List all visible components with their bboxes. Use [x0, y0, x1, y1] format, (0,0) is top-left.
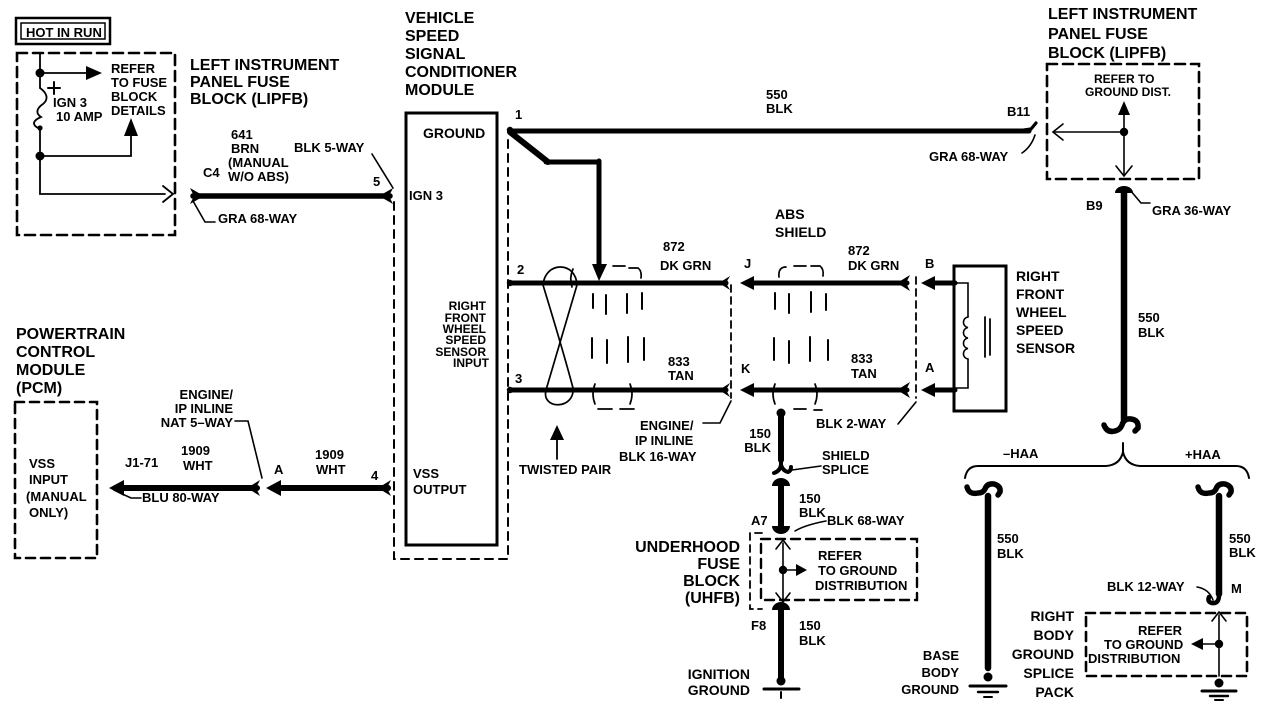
svg-text:872: 872 — [848, 243, 870, 258]
svg-text:872: 872 — [663, 239, 685, 254]
label RIGHT FRONT WHEEL SPEED SENSOR — [1016, 268, 1075, 356]
svg-text:150: 150 — [799, 491, 821, 506]
node junction dot splice pack — [1215, 640, 1223, 648]
svg-text:OUTPUT: OUTPUT — [413, 482, 467, 497]
svg-text:BODY: BODY — [921, 665, 959, 680]
svg-text:GRA 36-WAY: GRA 36-WAY — [1152, 203, 1232, 218]
svg-text:LEFT INSTRUMENT: LEFT INSTRUMENT — [1048, 6, 1198, 23]
svg-text:BLK: BLK — [799, 505, 826, 520]
svg-text:ONLY): ONLY) — [29, 505, 68, 520]
label LEFT INSTRUMENT PANEL FUSE BLOCK (LIPFB) right — [1048, 6, 1198, 62]
ground base body — [970, 673, 1006, 698]
wire 833 TAN pin3 segment — [511, 383, 730, 397]
note REFER TO GROUND DISTRIBUTION right — [1088, 623, 1183, 666]
sensor right front wheel speed sensor box — [954, 266, 1006, 411]
svg-text:1909: 1909 — [181, 443, 210, 458]
connector label BLK 5-WAY — [294, 140, 393, 188]
inductor coil inside sensor — [955, 283, 968, 388]
wire label 833 TAN right — [851, 351, 877, 381]
wire 150 BLK ignition ground — [772, 602, 790, 678]
node junction dot in LIPFB — [1120, 128, 1128, 136]
svg-text:IP INLINE: IP INLINE — [175, 401, 234, 416]
svg-text:REFER: REFER — [818, 548, 863, 563]
wire 1909 WHT module segment — [266, 480, 391, 496]
svg-text:IP INLINE: IP INLINE — [635, 433, 694, 448]
svg-text:DK GRN: DK GRN — [660, 258, 711, 273]
wire sensor pin A stub — [921, 383, 955, 397]
svg-text:DISTRIBUTION: DISTRIBUTION — [1088, 651, 1180, 666]
svg-text:DETAILS: DETAILS — [111, 103, 166, 118]
shield 1 hatch ticks upper row — [593, 293, 642, 314]
svg-text:833: 833 — [851, 351, 873, 366]
twisted pair symbol — [543, 267, 577, 405]
fuse block UHFB dashed box — [761, 539, 917, 600]
shield 2 hatch ticks upper row — [775, 292, 826, 313]
wire 833 TAN K segment — [740, 382, 910, 398]
node pin 3 knob — [507, 387, 513, 393]
svg-text:UNDERHOOD: UNDERHOOD — [635, 539, 740, 556]
svg-text:1909: 1909 — [315, 447, 344, 462]
plus sign — [48, 82, 60, 94]
note REFER TO GROUND DIST. — [1085, 72, 1171, 99]
wire 150 BLK drain upper — [778, 413, 784, 460]
svg-text:BLOCK (LIPFB): BLOCK (LIPFB) — [190, 91, 308, 108]
svg-text:SPLICE: SPLICE — [822, 462, 869, 477]
svg-text:TAN: TAN — [851, 366, 877, 381]
module pin name VSS INPUT (MANUAL ONLY) — [26, 456, 87, 520]
fuse IGN 3 10 AMP — [34, 77, 103, 151]
svg-text:IGN 3: IGN 3 — [409, 188, 443, 203]
wire arrow to refer note — [40, 66, 102, 80]
svg-text:SPLICE: SPLICE — [1023, 665, 1074, 681]
wire left arrow to B11 — [1053, 124, 1124, 140]
svg-text:BASE: BASE — [923, 648, 959, 663]
svg-text:INPUT: INPUT — [29, 472, 68, 487]
connector label BLK 2-WAY — [816, 402, 916, 431]
wire 550 BLK +HAA vertical — [1216, 496, 1223, 594]
wire 872 DK GRN pin2 segment — [511, 276, 730, 290]
svg-text:GROUND DIST.: GROUND DIST. — [1085, 85, 1171, 99]
wire label 550 BLK top — [766, 87, 793, 116]
connector 16-way inline dashed line — [730, 285, 732, 398]
label SHIELD SPLICE — [792, 448, 870, 477]
svg-text:PACK: PACK — [1035, 684, 1074, 700]
module U1 vehicle speed signal conditioner box — [406, 113, 497, 545]
wire label 150 BLK 3 — [799, 618, 826, 648]
svg-text:DK GRN: DK GRN — [848, 258, 899, 273]
svg-text:10 AMP: 10 AMP — [56, 109, 103, 124]
svg-text:BRN: BRN — [231, 141, 259, 156]
inductor core lines — [985, 317, 990, 357]
svg-text:RIGHT: RIGHT — [1016, 268, 1060, 284]
svg-text:BLK 2-WAY: BLK 2-WAY — [816, 416, 887, 431]
wire up-arrow to details — [40, 118, 138, 156]
svg-text:SHIELD: SHIELD — [822, 448, 870, 463]
wire into splice pack with up arrow — [1212, 612, 1226, 676]
svg-text:B9: B9 — [1086, 198, 1103, 213]
ground ignition — [764, 677, 799, 699]
splice hook drain lower start — [772, 478, 790, 486]
svg-text:–HAA: –HAA — [1003, 446, 1039, 461]
svg-text:PANEL FUSE: PANEL FUSE — [190, 74, 290, 91]
svg-text:BODY: BODY — [1034, 627, 1075, 643]
wire 550 BLK B9 vertical — [1115, 186, 1133, 420]
wire up arrow to ground dist — [1118, 101, 1130, 128]
shield 2 dashed outline top — [779, 266, 823, 277]
svg-text:550: 550 — [1229, 531, 1251, 546]
ground splice pack — [1202, 679, 1236, 701]
svg-text:PANEL FUSE: PANEL FUSE — [1048, 26, 1148, 43]
svg-text:550: 550 — [1138, 310, 1160, 325]
svg-text:LEFT INSTRUMENT: LEFT INSTRUMENT — [190, 57, 340, 74]
svg-text:TAN: TAN — [668, 368, 694, 383]
connector label ENGINE/ IP INLINE NAT 5-WAY — [161, 387, 262, 478]
label BASE BODY GROUND — [901, 648, 959, 697]
wire label 150 BLK 2 — [799, 491, 826, 520]
brace to -HAA and +HAA — [965, 443, 1249, 478]
svg-text:F8: F8 — [751, 618, 766, 633]
splice hook bottom of +HAA wire — [1208, 590, 1219, 603]
svg-text:150: 150 — [749, 426, 771, 441]
svg-text:IGN 3: IGN 3 — [53, 95, 87, 110]
svg-text:BLK: BLK — [744, 440, 771, 455]
svg-text:BLK: BLK — [799, 633, 826, 648]
svg-text:A: A — [274, 462, 284, 477]
svg-text:BLOCK: BLOCK — [683, 573, 740, 590]
wire branch to shield drain arrow — [510, 132, 607, 281]
splice hook drain upper end — [774, 460, 791, 473]
svg-text:HOT IN RUN: HOT IN RUN — [26, 25, 102, 40]
svg-text:+HAA: +HAA — [1185, 447, 1221, 462]
label HOT IN RUN — [16, 18, 110, 44]
connector label BLU 80-WAY — [114, 490, 220, 505]
svg-text:TO FUSE: TO FUSE — [111, 75, 167, 90]
svg-text:641: 641 — [231, 127, 253, 142]
wire 550 BLK pin1 to B11 — [511, 123, 1036, 131]
svg-text:REFER: REFER — [1138, 623, 1183, 638]
shield 1 dashed outline top — [571, 266, 641, 287]
svg-text:ENGINE/: ENGINE/ — [640, 418, 694, 433]
wire 150 BLK drain lower — [772, 484, 790, 534]
shield 1 dashed outline bottom — [593, 384, 634, 409]
svg-text:150: 150 — [799, 618, 821, 633]
svg-text:ABS: ABS — [775, 206, 805, 222]
svg-text:BLK 16-WAY: BLK 16-WAY — [619, 449, 697, 464]
module connector dashed outline — [394, 137, 508, 559]
label ABS SHIELD — [775, 206, 826, 240]
wire right arrow to distribution note — [787, 564, 807, 576]
svg-text:BLK: BLK — [997, 546, 1024, 561]
label POWERTRAIN CONTROL MODULE (PCM) — [16, 326, 125, 397]
svg-text:CONTROL: CONTROL — [16, 344, 95, 361]
shield 2 dashed outline bottom — [773, 384, 822, 410]
svg-text:B11: B11 — [1007, 104, 1030, 119]
svg-text:WHT: WHT — [183, 458, 213, 473]
svg-text:W/O ABS): W/O ABS) — [228, 169, 289, 184]
fuse block LIPFB left dashed box — [17, 53, 175, 235]
fuse block LIPFB right dashed box — [1047, 64, 1199, 179]
svg-text:SPEED: SPEED — [405, 28, 459, 45]
connector label BLK 68-WAY — [795, 513, 905, 531]
wire label 550 BLK -HAA — [997, 531, 1024, 561]
wire 550 BLK -HAA vertical — [985, 496, 992, 668]
connector label GRA 68-WAY right — [929, 135, 1035, 164]
svg-text:FRONT: FRONT — [1016, 286, 1065, 302]
module PCM dashed box — [15, 402, 97, 558]
svg-text:WHT: WHT — [316, 462, 346, 477]
svg-text:TWISTED PAIR: TWISTED PAIR — [519, 462, 612, 477]
svg-text:NAT 5–WAY: NAT 5–WAY — [161, 415, 234, 430]
fuse block UHFB outer dashed bracket — [750, 533, 762, 609]
wire label 550 BLK +HAA — [1229, 531, 1256, 560]
svg-text:DISTRIBUTION: DISTRIBUTION — [815, 578, 907, 593]
wire label 872 DK GRN right — [848, 243, 899, 273]
svg-text:GROUND: GROUND — [1012, 646, 1074, 662]
svg-text:IGNITION: IGNITION — [688, 666, 750, 682]
svg-text:SPEED: SPEED — [1016, 322, 1063, 338]
svg-text:BLK 5-WAY: BLK 5-WAY — [294, 140, 365, 155]
splice hook at bottom of B9 wire — [1104, 419, 1138, 432]
svg-text:(PCM): (PCM) — [16, 380, 62, 397]
svg-text:BLK: BLK — [766, 101, 793, 116]
svg-text:BLK 12-WAY: BLK 12-WAY — [1107, 579, 1185, 594]
wire 1909 WHT PCM segment — [109, 480, 260, 496]
connector label BLK 12-WAY — [1107, 579, 1213, 600]
svg-text:SIGNAL: SIGNAL — [405, 46, 466, 63]
svg-text:REFER TO: REFER TO — [1094, 72, 1154, 86]
wire label 872 DK GRN left — [660, 239, 711, 273]
svg-text:GROUND: GROUND — [423, 125, 485, 141]
svg-text:VEHICLE: VEHICLE — [405, 10, 475, 27]
wire label 1909 WHT right — [315, 447, 346, 477]
wire label 150 BLK 1 — [744, 426, 771, 455]
svg-text:TO GROUND: TO GROUND — [1104, 637, 1183, 652]
svg-text:B: B — [925, 256, 934, 271]
svg-text:TO GROUND: TO GROUND — [818, 563, 897, 578]
label TWISTED PAIR with arrow — [519, 425, 612, 477]
svg-text:BLOCK: BLOCK — [111, 89, 158, 104]
module pin name RIGHT FRONT WHEEL SPEED SENSOR INPUT — [435, 299, 489, 370]
wire down arrow out of LIPFB — [1116, 136, 1132, 176]
note REFER TO FUSE BLOCK DETAILS — [111, 61, 167, 118]
label IGNITION GROUND — [688, 666, 750, 698]
label UNDERHOOD FUSE BLOCK (UHFB) — [635, 539, 740, 607]
svg-text:J: J — [744, 256, 751, 271]
svg-text:SHIELD: SHIELD — [775, 224, 826, 240]
label VEHICLE SPEED SIGNAL CONDITIONER MODULE — [405, 10, 517, 99]
node junction dot 2 — [36, 152, 45, 161]
splice hook top of -HAA wire — [967, 484, 1000, 495]
connector label GRA 68-WAY — [193, 201, 298, 226]
svg-text:INPUT: INPUT — [453, 356, 490, 370]
svg-text:RIGHT: RIGHT — [1030, 608, 1074, 624]
note REFER TO GROUND DISTRIBUTION middle — [815, 548, 907, 593]
svg-text:MODULE: MODULE — [405, 82, 475, 99]
svg-text:WHEEL: WHEEL — [1016, 304, 1067, 320]
svg-text:CONDITIONER: CONDITIONER — [405, 64, 517, 81]
shield 1 hatch ticks lower row — [592, 337, 644, 363]
svg-text:A7: A7 — [751, 513, 768, 528]
label LEFT INSTRUMENT PANEL FUSE BLOCK (LIPFB) — [190, 57, 340, 108]
wire 872 DK GRN J segment — [740, 275, 910, 291]
svg-text:(UHFB): (UHFB) — [685, 590, 740, 607]
module pin name VSS OUTPUT — [413, 466, 467, 497]
svg-text:GRA 68-WAY: GRA 68-WAY — [929, 149, 1009, 164]
splice pack dashed box — [1086, 613, 1247, 676]
svg-text:FUSE: FUSE — [697, 556, 740, 573]
node junction dot UHFB — [779, 566, 787, 574]
svg-text:M: M — [1231, 581, 1242, 596]
svg-text:BLOCK (LIPFB): BLOCK (LIPFB) — [1048, 45, 1166, 62]
svg-text:3: 3 — [515, 371, 522, 386]
wire out of fuse block — [40, 160, 173, 202]
svg-text:550: 550 — [997, 531, 1019, 546]
svg-text:REFER: REFER — [111, 61, 156, 76]
svg-text:(MANUAL: (MANUAL — [26, 489, 87, 504]
node pin 2 knob — [507, 280, 513, 286]
svg-text:BLK: BLK — [1138, 325, 1165, 340]
wire through UHFB with arrows — [776, 540, 790, 602]
svg-text:POWERTRAIN: POWERTRAIN — [16, 326, 125, 343]
svg-text:BLU 80-WAY: BLU 80-WAY — [142, 490, 220, 505]
svg-text:4: 4 — [371, 468, 379, 483]
svg-text:K: K — [741, 361, 751, 376]
svg-text:BLK 68-WAY: BLK 68-WAY — [827, 513, 905, 528]
wire sensor pin B stub — [921, 276, 955, 290]
svg-text:ENGINE/: ENGINE/ — [180, 387, 234, 402]
svg-text:GRA 68-WAY: GRA 68-WAY — [218, 211, 298, 226]
connector 2-way dashed line — [915, 277, 917, 398]
wire left arrow to distribution note — [1191, 638, 1215, 650]
splice hook top of +HAA wire — [1198, 484, 1231, 495]
svg-text:VSS: VSS — [413, 466, 439, 481]
connector label ENGINE/ IP INLINE BLK 16-WAY — [619, 401, 731, 464]
wire label 641 BRN (MANUAL W/O ABS) — [228, 127, 289, 184]
svg-text:VSS: VSS — [29, 456, 55, 471]
svg-text:5: 5 — [373, 174, 380, 189]
node pin 1 knob — [507, 127, 513, 133]
svg-text:GROUND: GROUND — [688, 682, 750, 698]
svg-text:MODULE: MODULE — [16, 362, 86, 379]
svg-text:2: 2 — [517, 262, 524, 277]
wire from top to node — [39, 53, 41, 70]
wire 641 BRN C4 to pin 5 — [190, 188, 393, 204]
svg-text:550: 550 — [766, 87, 788, 102]
svg-text:C4: C4 — [203, 165, 220, 180]
svg-text:J1-71: J1-71 — [125, 455, 158, 470]
svg-text:833: 833 — [668, 354, 690, 369]
svg-text:(MANUAL: (MANUAL — [228, 155, 289, 170]
svg-text:A: A — [925, 360, 935, 375]
shield 2 hatch ticks lower row — [774, 337, 828, 363]
svg-text:BLK: BLK — [1229, 545, 1256, 560]
wire label 833 TAN left — [668, 354, 694, 383]
svg-text:SENSOR: SENSOR — [1016, 340, 1075, 356]
wire label 1909 WHT left — [181, 443, 213, 473]
node junction dot — [36, 69, 45, 78]
node shield drain dot — [777, 409, 786, 418]
svg-text:1: 1 — [515, 107, 522, 122]
svg-text:GROUND: GROUND — [901, 682, 959, 697]
connector label GRA 36-WAY — [1130, 190, 1232, 218]
label RIGHT BODY GROUND SPLICE PACK — [1012, 608, 1075, 700]
wire label 550 BLK right mid — [1138, 310, 1165, 340]
